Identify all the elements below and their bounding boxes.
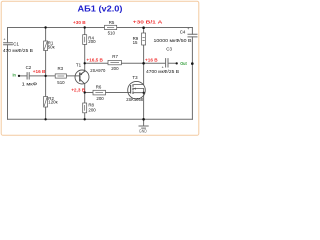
svg-text:15: 15 [133,40,138,45]
svg-text:In: In [13,72,17,77]
svg-text:+: + [3,38,5,42]
svg-text:T1: T1 [76,62,82,67]
svg-text:120к: 120к [48,100,57,105]
svg-text:510: 510 [57,80,65,85]
svg-text:1 мкФ: 1 мкФ [22,81,38,86]
svg-text:T3: T3 [132,75,138,80]
svg-text:4700 мкФ/25 В: 4700 мкФ/25 В [146,69,179,74]
svg-text:R3: R3 [58,66,64,71]
svg-text:C3: C3 [166,46,172,51]
svg-text:200: 200 [88,108,96,113]
svg-text:R7: R7 [112,54,118,59]
svg-text:+16,5 В: +16,5 В [86,57,103,62]
svg-text:Out: Out [180,61,187,66]
svg-text:510: 510 [108,31,116,36]
svg-text:+16 В: +16 В [145,57,158,62]
svg-text:R5: R5 [109,20,115,25]
svg-text:+30 В: +30 В [73,20,86,25]
svg-text:+2,3 В: +2,3 В [71,87,86,92]
svg-text:470 мкФ/25 В: 470 мкФ/25 В [3,48,33,53]
svg-text:200: 200 [88,39,96,44]
svg-text:C1: C1 [13,42,19,47]
svg-text:C4: C4 [180,29,186,34]
svg-text:2SK1058: 2SK1058 [126,97,143,102]
svg-text:+: + [187,27,189,31]
svg-text:АБ1 (v2.0): АБ1 (v2.0) [78,5,123,14]
svg-text:200: 200 [111,66,119,71]
svg-text:R6: R6 [96,85,102,90]
svg-text:200: 200 [96,96,104,101]
svg-text:GND: GND [139,128,147,133]
svg-text:10000 мкФ/50 В: 10000 мкФ/50 В [154,38,192,43]
svg-text:+30 В/1 А: +30 В/1 А [133,20,163,25]
svg-text:2SA970: 2SA970 [90,68,106,73]
svg-text:C2: C2 [26,65,32,70]
svg-text:50к: 50к [48,45,55,50]
svg-text:+16 В: +16 В [33,69,46,74]
